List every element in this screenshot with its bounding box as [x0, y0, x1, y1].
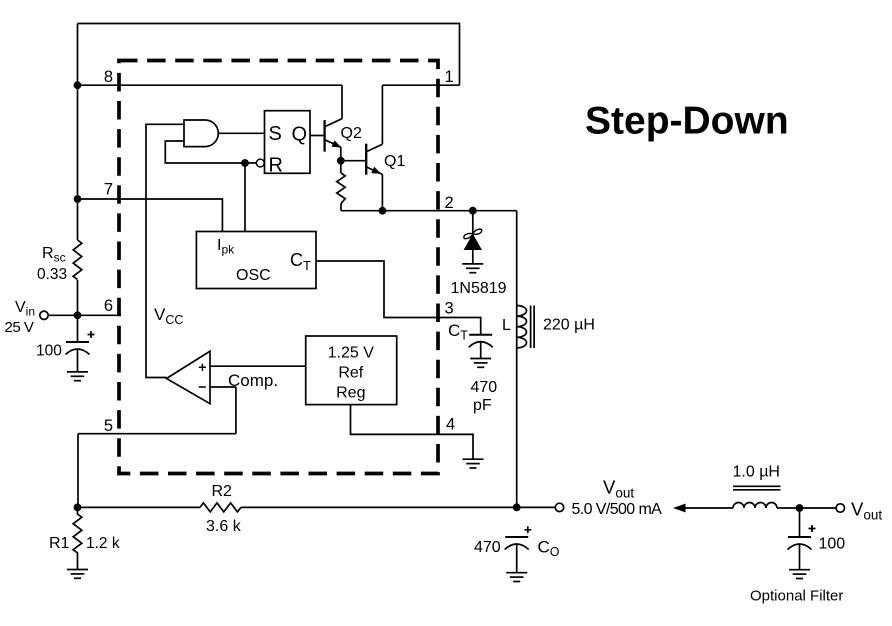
svg-text:100: 100 — [36, 343, 62, 360]
wire R net drop to OSC — [244, 163, 246, 232]
svg-text:1.25 V: 1.25 V — [328, 345, 375, 362]
ground (diode D1) — [462, 264, 483, 273]
value 220 uH — [543, 317, 595, 334]
svg-text:S: S — [269, 123, 282, 145]
wire filter cap drop — [799, 508, 801, 537]
svg-text:R1: R1 — [49, 535, 70, 552]
svg-text:25 V: 25 V — [5, 319, 34, 336]
comparator U4 triangle — [167, 351, 211, 404]
svg-text:1.0 µH: 1.0 µH — [733, 464, 780, 481]
wire Q1 emitter to pin 2 — [381, 174, 383, 210]
label Comp. — [228, 371, 278, 390]
label L — [502, 317, 511, 334]
svg-text:Comp.: Comp. — [228, 371, 278, 390]
terminal Vout (filter) — [836, 504, 844, 512]
svg-text:OSC: OSC — [236, 267, 271, 284]
ground (timing cap CT) — [470, 359, 491, 368]
svg-text:CT: CT — [448, 321, 468, 343]
value 470 (timing cap) — [471, 379, 498, 396]
svg-text:Rsc: Rsc — [42, 245, 66, 265]
value 5.0 V/500 mA — [572, 501, 663, 518]
wire pin 8 — [78, 84, 343, 86]
inductor L1 220 uH coil — [517, 306, 527, 348]
value 100 (filter cap) — [819, 536, 846, 553]
latch box U3 (S R Q) — [265, 111, 311, 174]
wire L2 to Vout filter terminal — [777, 507, 836, 509]
value 0.33 — [37, 266, 67, 283]
wire inductor rail (pin2 node down to output node) — [516, 211, 518, 508]
transistor Q1 — [366, 144, 382, 175]
wire Q2 emitter to Q1 base — [341, 160, 366, 162]
wire top rail to pin 1 — [78, 24, 460, 86]
svg-text:220 µH: 220 µH — [543, 317, 595, 334]
capacitor CO 470 (output) plates — [505, 537, 529, 573]
junction node pin8/rail — [74, 81, 82, 89]
value pF — [473, 397, 492, 414]
wire pin 6 — [48, 314, 121, 316]
resistor R2 3.6 k — [200, 503, 241, 512]
wire feedback drop to R1/R2 node — [77, 434, 79, 508]
resistor Rsc 0.33 — [73, 240, 82, 280]
junction node feedback R1/R2 — [74, 504, 82, 512]
junction node Q2 emitter — [337, 157, 345, 165]
label Q2 — [341, 125, 362, 142]
wire pin 2 switch output — [341, 210, 517, 212]
value 1.2 k — [86, 535, 120, 552]
svg-text:CO: CO — [538, 538, 560, 560]
oscillator box OSC — [196, 232, 316, 289]
wire pin 3 (OSC CT out to timing cap) — [316, 261, 481, 335]
wire pin 5 — [78, 433, 236, 435]
svg-text:Q2: Q2 — [341, 125, 362, 142]
svg-text:3: 3 — [445, 300, 454, 318]
svg-text:8: 8 — [104, 68, 113, 86]
svg-text:Reg: Reg — [336, 385, 365, 402]
wire Q2 emitter drop to R3 — [340, 147, 342, 173]
wire Q output to Q2 base — [310, 135, 325, 137]
value 3.6 k — [206, 518, 242, 535]
pin 7 label — [104, 181, 113, 199]
capacitor C2 100 (filter) plates — [788, 537, 812, 570]
svg-text:7: 7 — [104, 181, 113, 199]
wire R3 bottom lead — [340, 204, 342, 211]
pin 3 label — [445, 300, 454, 318]
label R — [269, 155, 283, 177]
label 1.25 V — [328, 345, 375, 362]
wire comparator - input — [210, 386, 236, 388]
svg-text:Q: Q — [292, 124, 308, 146]
value 1N5819 — [451, 280, 507, 297]
plus sign CO — [524, 526, 531, 533]
terminal Vout — [555, 503, 563, 511]
junction node pin7/rail — [74, 195, 82, 203]
label CT (inside OSC) — [290, 250, 311, 273]
svg-text:5: 5 — [104, 417, 113, 435]
label R1 — [49, 535, 70, 552]
svg-text:R: R — [269, 155, 283, 177]
svg-text:Vout: Vout — [603, 477, 634, 501]
ground (input cap C1) — [67, 372, 88, 381]
ground (output cap CO) — [506, 573, 527, 582]
value 470 (output cap) — [474, 539, 501, 556]
label CT (timing cap) — [448, 321, 468, 343]
svg-text:Ref: Ref — [338, 365, 363, 382]
label VCC — [154, 305, 183, 327]
svg-text:Q1: Q1 — [384, 153, 405, 170]
wire filter arrow to L2 — [685, 507, 733, 509]
label Optional Filter — [750, 588, 843, 605]
comparator plus marker — [199, 364, 206, 371]
label OSC — [236, 267, 271, 284]
svg-text:R2: R2 — [212, 483, 233, 500]
wire inverting input drop — [235, 387, 237, 434]
resistor R3 (Q2 emitter resistor) — [337, 173, 345, 204]
svg-text:470: 470 — [471, 379, 498, 396]
inductor L1 core bars — [531, 306, 535, 349]
IC boundary dashed box U1 — [119, 61, 438, 474]
pin 8 label — [104, 68, 113, 86]
label Vout — [603, 477, 634, 501]
pin 1 label — [445, 68, 454, 86]
capacitor CT 470 pF plates — [469, 335, 493, 359]
arrow to Vout (filter connection) — [673, 504, 686, 513]
junction node R input — [241, 159, 249, 167]
title Step-Down — [585, 100, 789, 143]
svg-text:6: 6 — [104, 297, 113, 315]
label Ipk — [217, 237, 235, 257]
label Q — [292, 124, 308, 146]
svg-text:Vout: Vout — [851, 499, 882, 523]
wire Q1 collector to pin 1 — [381, 85, 383, 144]
wire left input rail lower (Rsc to Vin node to C1) — [77, 280, 79, 342]
svg-text:1N5819: 1N5819 — [451, 280, 507, 297]
label Q1 — [384, 153, 405, 170]
svg-text:VCC: VCC — [154, 305, 183, 327]
wire AND gate input 2 / R input net — [165, 141, 256, 163]
label R2 — [212, 483, 233, 500]
value 100 (input cap) — [36, 343, 62, 360]
svg-text:470: 470 — [474, 539, 501, 556]
wire feedback left of R2 — [78, 506, 201, 508]
svg-text:Vin: Vin — [15, 299, 35, 319]
label Rsc — [42, 245, 66, 265]
value 1.0 uH — [733, 464, 780, 481]
ground (pin 4) — [463, 459, 484, 468]
junction node diode / pin 2 — [469, 207, 477, 215]
svg-text:1: 1 — [445, 68, 454, 86]
label CO — [538, 538, 560, 560]
junction node Q1 emitter / pin 2 — [379, 207, 387, 215]
transistor Q2 — [325, 119, 342, 152]
terminal Vin — [40, 311, 48, 319]
label Vout (filter) — [851, 499, 882, 523]
plus sign C2 — [809, 525, 816, 532]
svg-text:3.6 k: 3.6 k — [206, 518, 242, 535]
label S — [269, 123, 282, 145]
svg-text:1.2 k: 1.2 k — [86, 535, 120, 552]
wire pin 7 — [78, 199, 223, 232]
wire R2 to output node — [241, 506, 517, 508]
wire pin 1 horizontal — [382, 84, 459, 86]
svg-text:Step-Down: Step-Down — [585, 100, 789, 143]
wire output node to Vout terminal — [517, 506, 556, 508]
wire AND output to S input — [218, 132, 264, 134]
wire comparator + input to Ref — [210, 365, 306, 367]
pin 5 label — [104, 417, 113, 435]
ground (filter cap C2) — [789, 570, 810, 579]
junction node filter cap — [796, 504, 804, 512]
junction node Vin — [74, 311, 82, 319]
inductor L2 1.0 uH coil — [733, 503, 777, 508]
R input bubble — [256, 159, 264, 167]
pin 4 label — [446, 416, 455, 434]
svg-text:L: L — [502, 317, 511, 334]
inductor L2 core bars — [733, 486, 781, 490]
plus sign C1 — [88, 331, 95, 338]
junction node output — [513, 504, 521, 512]
comparator minus marker — [199, 386, 206, 388]
diode D1 1N5819 (Schottky) — [463, 211, 483, 264]
svg-text:5.0 V/500 mA: 5.0 V/500 mA — [572, 501, 663, 518]
wire Q2 collector to pin 8 — [341, 85, 343, 119]
svg-text:Optional Filter: Optional Filter — [750, 588, 843, 605]
resistor R1 1.2 k — [73, 507, 82, 569]
svg-text:100: 100 — [819, 536, 846, 553]
capacitor C1 100 (input) plates — [66, 342, 90, 372]
wire AND gate input 1 from comparator output — [146, 124, 184, 377]
label Vin — [15, 299, 35, 319]
label Ref — [338, 365, 363, 382]
reference regulator box (1.25 V Ref Reg) — [306, 336, 397, 405]
svg-text:4: 4 — [446, 416, 455, 434]
ground (R1) — [67, 570, 88, 579]
wire pin 4 (Ref Reg to ground) — [351, 405, 474, 459]
pin 2 label — [445, 194, 454, 212]
wire left input rail upper — [77, 24, 79, 241]
svg-text:pF: pF — [473, 397, 492, 414]
AND gate U2 — [184, 120, 218, 147]
pin 6 label — [104, 297, 113, 315]
value 25 V — [5, 319, 34, 336]
svg-text:2: 2 — [445, 194, 454, 212]
svg-text:0.33: 0.33 — [37, 266, 67, 283]
label Reg — [336, 385, 365, 402]
